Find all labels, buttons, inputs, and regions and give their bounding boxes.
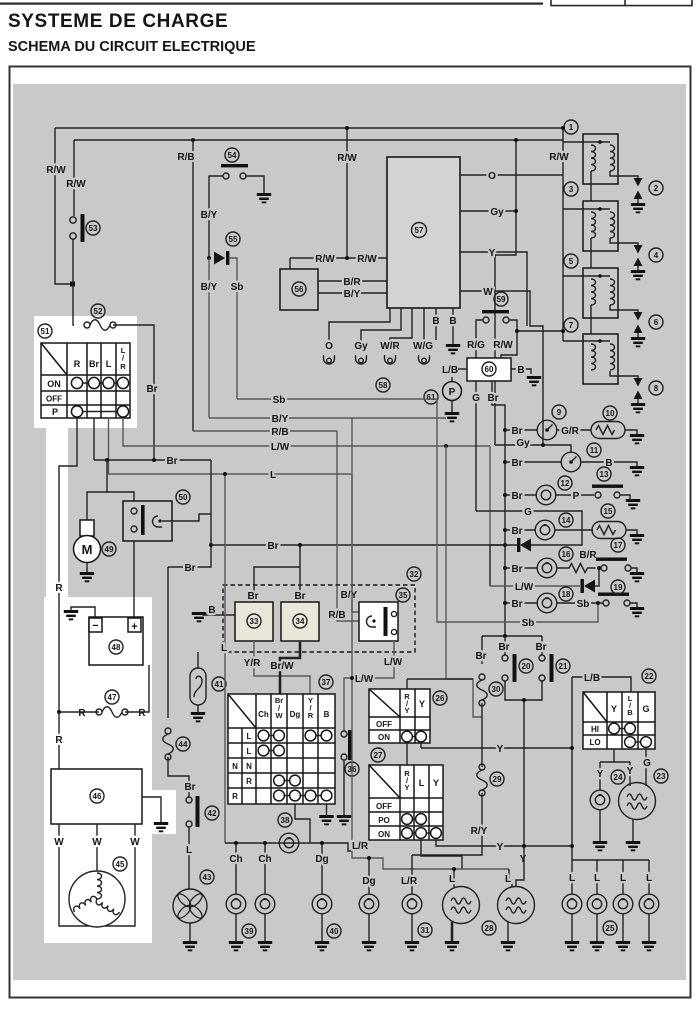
wire L/B to dimmer table [572, 677, 631, 692]
svg-text:54: 54 [228, 151, 237, 160]
wire Y/R from 33 [254, 641, 310, 694]
label 45 [113, 857, 127, 871]
svg-text:R/G: R/G [467, 340, 485, 351]
switch 53 contacts [70, 217, 76, 223]
svg-text:B: B [432, 316, 439, 327]
svg-text:L/B: L/B [442, 365, 458, 376]
svg-text:G: G [643, 758, 651, 769]
svg-text:R/W: R/W [493, 340, 513, 351]
svg-text:W: W [54, 837, 64, 848]
svg-text:Br: Br [511, 564, 522, 575]
spark plug 6 [631, 312, 645, 347]
resistor 16-17 [557, 564, 596, 573]
fuse 30 down through Y [481, 703, 483, 767]
wire R/W branch to relay 60 [501, 331, 563, 358]
svg-text:L: L [419, 778, 425, 788]
L/W row with diode [490, 585, 580, 587]
Br bus horizontal [94, 459, 211, 461]
header right table cell [551, 0, 692, 6]
junction tick [70, 282, 75, 287]
fuel gauge 9 row [505, 429, 537, 431]
brake switch outputs joined [505, 681, 542, 700]
svg-text:B/Y: B/Y [201, 282, 218, 293]
svg-text:R: R [55, 735, 63, 746]
svg-text:W: W [275, 711, 283, 720]
meter lamp 25b [596, 860, 598, 894]
svg-text:2: 2 [654, 184, 659, 193]
svg-text:M: M [82, 542, 93, 557]
wire R/W ignition vertical [562, 128, 564, 341]
svg-text:25: 25 [606, 924, 615, 933]
svg-text:R/W: R/W [315, 254, 335, 265]
svg-text:Y: Y [497, 744, 504, 755]
box 56 [280, 269, 318, 310]
svg-text:34: 34 [296, 617, 305, 626]
battery ground [64, 610, 78, 620]
svg-text:43: 43 [203, 873, 212, 882]
Y bus [421, 747, 572, 749]
white zone around main switch 51 [34, 316, 137, 428]
svg-text:Y: Y [597, 769, 604, 780]
box57 bottom pin B 2 to ground [452, 308, 454, 344]
svg-text:O: O [325, 341, 333, 352]
relay 35 box [359, 602, 398, 641]
svg-text:Br: Br [535, 642, 546, 653]
svg-text:R/W: R/W [357, 254, 377, 265]
label 51 [38, 324, 52, 338]
L feed drop to lamp bus [224, 474, 226, 843]
drop to L/R lamp [411, 855, 413, 894]
svg-text:R/Y: R/Y [471, 826, 488, 837]
svg-text:Y: Y [433, 778, 439, 788]
white notch at rectifier ground [142, 790, 176, 834]
fan switch 42 bar [196, 796, 200, 827]
box57 bottom pin Gy [361, 308, 401, 351]
svg-text:R/W: R/W [66, 179, 86, 190]
svg-text:Br: Br [511, 491, 522, 502]
svg-text:L/W: L/W [515, 582, 534, 593]
bulb 41 [197, 652, 199, 668]
label 35 [396, 588, 410, 602]
junction R/B [191, 138, 195, 142]
diode on G line [520, 539, 531, 552]
header top rule [0, 3, 543, 5]
svg-text:B/Y: B/Y [341, 590, 358, 601]
svg-text:HI: HI [591, 725, 599, 734]
svg-text:Br: Br [166, 456, 177, 467]
svg-text:13: 13 [600, 470, 609, 479]
svg-text:20: 20 [522, 662, 531, 671]
drop to Dg lamp [321, 843, 323, 894]
label 3 [564, 182, 578, 196]
stator coils [97, 873, 102, 899]
svg-text:L: L [449, 874, 455, 885]
svg-text:Br: Br [511, 599, 522, 610]
svg-text:5: 5 [569, 257, 574, 266]
svg-text:31: 31 [421, 926, 430, 935]
wire fuse row right to battery [125, 665, 149, 712]
svg-text:L: L [646, 873, 652, 884]
fuel sender 10 [591, 422, 625, 439]
svg-text:L/B: L/B [584, 673, 600, 684]
wire P ground [451, 400, 453, 412]
connector hook W/R [385, 355, 396, 364]
svg-text:Sb: Sb [577, 599, 590, 610]
wire to stop lamp [516, 846, 524, 886]
svg-text:Ch: Ch [258, 854, 271, 865]
headlight 23 [619, 783, 656, 820]
main switch 51 table [41, 343, 130, 418]
svg-text:G/R: G/R [561, 426, 580, 437]
svg-text:B/R: B/R [343, 277, 361, 288]
svg-text:O: O [488, 171, 496, 182]
svg-text:16: 16 [562, 550, 571, 559]
switch 54 contacts [223, 173, 229, 179]
L/R drop from switches [352, 474, 509, 869]
svg-text:SYSTEME DE CHARGE: SYSTEME DE CHARGE [8, 11, 228, 32]
label 44 [176, 737, 190, 751]
junction diode [207, 256, 211, 260]
svg-text:W: W [130, 837, 140, 848]
wire W pins [59, 824, 89, 926]
svg-text:R: R [74, 359, 81, 369]
relay 50 coil [153, 516, 163, 527]
svg-text:R: R [120, 362, 126, 371]
svg-text:49: 49 [105, 545, 114, 554]
diode block 33 [235, 602, 273, 641]
turn lamp left rear 39b [255, 894, 275, 914]
relay 50 contacts [131, 508, 137, 514]
wire 36 to ground [343, 760, 345, 815]
svg-text:L: L [620, 873, 626, 884]
fuse 47 row [96, 707, 128, 718]
svg-text:Br: Br [487, 393, 498, 404]
start switch table 27 [369, 765, 443, 840]
svg-text:G: G [524, 507, 532, 518]
svg-text:R/W: R/W [46, 165, 66, 176]
svg-text:56: 56 [295, 285, 304, 294]
wire fuse to Br drop [113, 325, 154, 460]
svg-text:1: 1 [569, 123, 574, 132]
meter lamp 25c [622, 860, 624, 894]
neutral lamp 18 row [505, 602, 537, 604]
relay 35 contacts [391, 611, 396, 616]
wire W row stepped [460, 291, 543, 445]
svg-text:B: B [627, 708, 633, 717]
label 42 [205, 806, 219, 820]
svg-text:Y: Y [497, 842, 504, 853]
wire R/W switch branch [73, 140, 75, 216]
svg-text:R: R [138, 708, 146, 719]
label 57 [412, 223, 427, 238]
svg-text:Br: Br [146, 384, 157, 395]
label 56 [292, 282, 306, 296]
wire Br down mid [168, 460, 211, 567]
svg-text:37: 37 [322, 678, 331, 687]
label 27 [371, 748, 385, 762]
wire B col to ground [326, 804, 328, 815]
fuse 52 [84, 320, 116, 331]
label 43 [200, 870, 214, 884]
svg-text:55: 55 [229, 235, 238, 244]
wire 59 right junction [509, 320, 517, 331]
svg-text:12: 12 [561, 479, 570, 488]
temp sender 15 [592, 522, 626, 539]
svg-text:30: 30 [492, 685, 501, 694]
wire Y out of 27 [436, 840, 572, 846]
wire R/B vertical [192, 140, 194, 431]
svg-text:Y/R: Y/R [244, 658, 261, 669]
wire Br column down [93, 418, 95, 460]
svg-text:Gy: Gy [354, 341, 368, 352]
svg-text:L: L [221, 643, 227, 654]
svg-text:23: 23 [657, 772, 666, 781]
label 2 [649, 181, 663, 195]
svg-text:41: 41 [215, 680, 224, 689]
svg-text:Br: Br [184, 782, 195, 793]
alternator 45 [69, 871, 125, 927]
svg-text:ON: ON [378, 733, 390, 742]
ignition coil box 1 [563, 134, 638, 201]
wire coupler 44 [167, 567, 169, 718]
wire 42 to fan [188, 827, 190, 889]
svg-text:14: 14 [562, 516, 571, 525]
svg-text:26: 26 [436, 694, 445, 703]
svg-text:L/W: L/W [384, 657, 403, 668]
wire Br/W col down to lamp bus [295, 804, 310, 843]
svg-text:18: 18 [562, 590, 571, 599]
svg-text:W: W [92, 837, 102, 848]
diode block 34 [281, 602, 319, 641]
wire L/R column to L/W bus [123, 418, 490, 446]
handlebar switch table 37 [228, 694, 335, 804]
svg-text:33: 33 [250, 617, 259, 626]
svg-text:29: 29 [493, 775, 502, 784]
wire L column to L bus [109, 418, 353, 474]
svg-text:Ch: Ch [258, 710, 269, 719]
fuse 29 [477, 764, 488, 796]
junction dots Br bus [152, 458, 156, 462]
label 52 [91, 304, 105, 318]
wire diode to Sb [229, 258, 237, 399]
meter lamp 38 [279, 833, 299, 853]
front brake switch 20 [504, 636, 506, 655]
box57 bottom pin B 1 [435, 308, 437, 340]
svg-text:Y: Y [627, 766, 634, 777]
spark plug 4 [631, 245, 645, 280]
wire L/W from 35 [344, 641, 394, 731]
svg-text:L: L [247, 747, 252, 756]
label 39 [242, 924, 256, 938]
CDI unit 57 [387, 157, 460, 308]
wire G pin down [475, 381, 477, 511]
wire Gy stepped down [495, 140, 516, 445]
svg-text:Dg: Dg [315, 854, 328, 865]
svg-text:R: R [246, 777, 252, 786]
svg-text:B: B [324, 710, 330, 719]
rectifier regulator 46 [51, 769, 142, 824]
R/W row into box 57 [290, 257, 387, 259]
label 49 [102, 542, 116, 556]
svg-text:Br: Br [498, 642, 509, 653]
label 40 [327, 924, 341, 938]
svg-text:ON: ON [378, 830, 390, 839]
svg-text:40: 40 [330, 927, 339, 936]
svg-text:R: R [308, 711, 314, 720]
meter lamp 24 [590, 790, 610, 810]
svg-text:Gy: Gy [490, 207, 504, 218]
svg-text:R/W: R/W [337, 153, 357, 164]
fan motor 43 [173, 889, 207, 923]
svg-text:28: 28 [485, 924, 494, 933]
spark plug 8 [631, 378, 645, 413]
meter lamps bus [572, 859, 649, 861]
svg-text:11: 11 [590, 446, 599, 455]
wire O row [460, 174, 563, 176]
clutch switch 36 [341, 731, 347, 737]
svg-text:58: 58 [379, 381, 388, 390]
temp gauge 11 row [505, 461, 561, 463]
svg-text:Sb: Sb [231, 282, 244, 293]
wire Sb down right [437, 399, 598, 622]
svg-text:27: 27 [374, 751, 383, 760]
wire L out of 27 [421, 840, 462, 869]
box57 bottom pin O [329, 308, 390, 351]
svg-text:Br: Br [475, 651, 486, 662]
svg-text:P: P [52, 407, 58, 417]
svg-text:−: − [92, 620, 98, 632]
svg-text:Y: Y [520, 854, 527, 865]
svg-text:L: L [505, 874, 511, 885]
bulb 41 ground [197, 705, 199, 712]
lamp Dg 40b [359, 894, 379, 914]
svg-text:L: L [270, 470, 276, 481]
fuse 30 [477, 674, 488, 706]
lamp bus [225, 843, 352, 851]
dimmer switch table 22 [583, 692, 655, 749]
svg-text:Y: Y [489, 248, 496, 259]
svg-text:Br: Br [267, 541, 278, 552]
label 7 [564, 318, 578, 332]
svg-text:Br: Br [511, 526, 522, 537]
wire 54 left to B/Y [209, 176, 223, 258]
svg-text:Y: Y [404, 783, 409, 792]
svg-text:L: L [569, 873, 575, 884]
pickup P 61 [443, 382, 462, 401]
engine stop switch table 26 [369, 689, 430, 743]
temp lamp 14 row [505, 529, 535, 531]
relay 35 bar [384, 607, 388, 636]
box 56 top pin [289, 258, 291, 269]
label 5 [564, 254, 578, 268]
svg-text:W/G: W/G [413, 341, 433, 352]
svg-text:L/W: L/W [271, 442, 290, 453]
svg-text:Dg: Dg [290, 710, 301, 719]
wire 54 right to ground [246, 176, 264, 193]
svg-text:OFF: OFF [376, 720, 392, 729]
svg-text:Dg: Dg [362, 876, 375, 887]
label 54 [225, 148, 239, 162]
relay 50 bar [141, 505, 145, 535]
Br T to brake switches [482, 635, 542, 637]
svg-text:Ch: Ch [229, 854, 242, 865]
svg-text:R/W: R/W [549, 152, 569, 163]
svg-text:Br: Br [511, 458, 522, 469]
turn lamp left front 39a [226, 894, 246, 914]
label 41 [212, 677, 226, 691]
wire R/W main top bus [55, 127, 563, 129]
wire B ground of block [203, 613, 235, 615]
svg-text:B: B [517, 365, 524, 376]
svg-text:L: L [106, 359, 112, 369]
svg-text:R/B: R/B [177, 152, 194, 163]
tail stop lamp 28b [509, 869, 512, 887]
svg-text:7: 7 [569, 321, 574, 330]
svg-text:+: + [131, 621, 137, 633]
svg-text:N: N [232, 762, 238, 771]
wire 26 Y out [420, 743, 422, 748]
connector hook Gy [356, 355, 367, 364]
svg-text:Br: Br [511, 426, 522, 437]
label 55 [226, 232, 240, 246]
wire relay 50 top feed [107, 460, 134, 501]
svg-text:15: 15 [604, 507, 613, 516]
svg-text:19: 19 [614, 583, 623, 592]
wire R/Y feed right [446, 446, 482, 717]
svg-text:22: 22 [645, 672, 654, 681]
label 6 [649, 315, 663, 329]
label 50 [176, 490, 190, 504]
wire B of 60 to ground [511, 369, 531, 374]
label 37 [319, 675, 333, 689]
label 53 [86, 221, 100, 235]
starter relay 50 box [123, 501, 172, 541]
svg-text:45: 45 [116, 860, 125, 869]
wire 46 to ground [142, 797, 161, 822]
rear brake switch 21 [541, 636, 543, 655]
relay unit 60 [467, 358, 511, 381]
label 25 [603, 921, 617, 935]
svg-text:R/B: R/B [271, 427, 288, 438]
ground of P [445, 412, 459, 422]
svg-text:P: P [573, 491, 580, 502]
wire Gy row [460, 210, 516, 212]
svg-text:L/W: L/W [355, 674, 374, 685]
svg-text:Y: Y [419, 699, 425, 709]
svg-text:Y: Y [611, 704, 617, 714]
ignition coil box 4 [563, 334, 638, 384]
wire Br/W from 34 thick [280, 641, 300, 694]
Br bus junction dots [503, 543, 507, 547]
svg-text:61: 61 [427, 393, 436, 402]
wire L/B stub of 60 [458, 368, 467, 370]
svg-text:57: 57 [415, 226, 424, 235]
label 58 [376, 378, 390, 392]
svg-text:Gy: Gy [516, 438, 530, 449]
switch 53 bar [81, 214, 85, 242]
svg-text:W: W [483, 287, 493, 298]
wire P stub [451, 377, 453, 381]
Sb bus [237, 398, 437, 400]
svg-text:B: B [449, 316, 456, 327]
switch 59 contacts [483, 317, 489, 323]
oil switch 17 [596, 558, 627, 561]
wire R/B down to relay 35 [337, 431, 361, 621]
wire R/W left drop [55, 128, 74, 284]
svg-text:L/R: L/R [352, 841, 369, 852]
white zone battery/rectifier/alternator [44, 597, 152, 943]
svg-text:B: B [208, 605, 215, 616]
